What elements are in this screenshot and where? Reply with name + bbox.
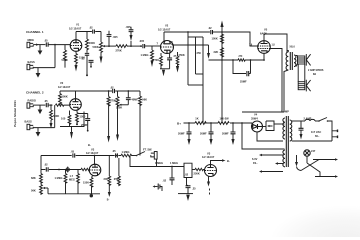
svg-text:1/2 12AX7: 1/2 12AX7 [158,28,171,32]
B- arrow x71.5 [70,132,73,139]
svg-text:B-: B- [88,143,91,147]
svg-text:1 MEG: 1 MEG [55,176,63,180]
svg-text:V2: V2 [60,81,64,85]
svg-text:FT. SW.: FT. SW. [143,148,152,152]
wire OT primary bottom [284,70,288,112]
svg-text:.05: .05 [44,39,48,43]
ground arrow C13 [300,134,303,140]
capacitor C3 decoupling [85,53,89,55]
svg-text:.005: .005 [126,25,132,29]
svg-text:1/2 12AX7: 1/2 12AX7 [58,85,71,89]
jack J2 bass input [27,64,33,69]
B- arrow pot bottom [100,57,103,64]
wire C7 to V2 grid [145,45,161,47]
ground arrow V2 cathode [160,68,170,70]
tube V3a 1/2 12AX7 [89,164,101,176]
cathode row wire [209,59,265,61]
wire V5 plate to OT [264,34,287,52]
svg-text:1 MEG: 1 MEG [141,53,149,57]
wire B+ filter bus [184,122,253,124]
node junction C7 [140,45,142,47]
svg-text:.005: .005 [113,35,119,39]
wire bus to V4 [251,123,253,127]
mixer row wire [41,155,121,157]
wire wiper out right [109,45,116,47]
wire J5 to junction [33,127,55,129]
grid row wire [41,169,81,171]
svg-text:6.3V: 6.3V [252,157,258,161]
ground bus right [178,193,193,195]
wire V5 screen to riser [270,49,282,113]
switch SW1 [318,120,320,122]
tone pot riser [40,156,42,174]
wire box to transformer [274,123,285,125]
wire primary bottom [292,140,332,142]
wiper arrow R17 [119,104,121,106]
capacitor C4 cathode bypass [89,60,94,62]
capacitor C13 line [299,128,304,130]
wiper arrow tone pot [45,187,49,189]
svg-text:56K: 56K [142,98,147,102]
filament arrow 2 [278,163,283,165]
svg-text:500K: 500K [62,95,68,99]
ground symbol bass jack [36,73,41,78]
node 222/32 [221,31,223,33]
svg-text:250: 250 [197,51,202,55]
speaker SP2 [298,80,310,92]
capacitor C23 25MF cathode [247,71,249,76]
svg-text:1/2 12AX7: 1/2 12AX7 [202,155,215,159]
node bus x188 [187,31,189,33]
svg-text:Pepco Model 9191: Pepco Model 9191 [13,100,17,127]
heater bend wire [297,167,302,171]
svg-text:100-2W: 100-2W [220,117,230,121]
wire V2b plate up [75,91,77,99]
wire jack down to trem bus [156,159,158,166]
svg-text:2 AMP SPKRS: 2 AMP SPKRS [308,69,324,72]
svg-text:.05: .05 [44,99,48,103]
wire V5 cathode [263,53,265,60]
svg-text:V5: V5 [264,28,268,32]
B- arrow under R6 [151,61,154,68]
svg-text:8Ω: 8Ω [313,74,316,76]
riser x140 [139,91,142,156]
svg-text:.02: .02 [110,85,114,89]
svg-text:500K: 500K [53,114,59,118]
svg-text:1 MEG: 1 MEG [170,161,178,165]
pilot lamp PL1 [304,150,310,156]
svg-text:250K: 250K [179,53,185,57]
svg-text:20MF: 20MF [178,132,185,136]
svg-text:1 AMP: 1 AMP [281,110,289,114]
wire primary top to fuse [292,120,305,122]
wire box bottom h74 [196,73,204,75]
arrow tick on wire [36,44,39,46]
ground symbol J5 [36,132,41,137]
arrow in box [270,125,273,127]
svg-text:CHANNEL 1: CHANNEL 1 [26,30,44,34]
B- arrow under pot [116,135,119,142]
svg-text:40MF: 40MF [131,98,138,102]
ground arrow C10 [187,139,190,145]
AC plug P1 [332,128,338,142]
svg-text:B-: B- [107,200,110,202]
small cap with arrow mid-bottom [154,186,158,188]
svg-text:100: 100 [61,117,66,121]
capacitor C15 25MF ch2 bypass [78,114,88,119]
ground drop channel1 jack [39,45,41,49]
wire box right x203 [202,37,204,123]
svg-text:V2: V2 [165,24,169,28]
svg-text:.02: .02 [89,26,93,30]
wire C14 to grid [48,104,52,106]
wire wiper to bus [47,188,49,194]
svg-text:CHANNEL 2: CHANNEL 2 [26,91,44,95]
svg-text:.05: .05 [112,149,116,153]
loop under V2b [60,112,84,127]
B- arrow under R16 [107,136,110,143]
heater diagonal down [307,163,320,177]
wire V1 plate up [75,32,77,40]
wire V3b plate to B- arrow [211,161,223,165]
grid box loop V3b [184,163,192,177]
heater diagonal up [301,160,319,171]
svg-text:B+: B+ [177,122,181,126]
wire x71.5 down to arrow [71,127,73,133]
wire grid feed to V5 [222,32,258,46]
svg-text:.02: .02 [208,26,212,30]
resistor R29 divider [176,52,179,66]
wire V4 out to box [262,126,266,128]
svg-text:.005: .005 [139,39,145,43]
heater feed arrow bottom [315,176,335,178]
B+ up arrow node [221,27,223,123]
svg-text:250K: 250K [194,171,200,175]
wire bass2 riser [54,105,56,128]
ground arrow C12 [231,139,234,145]
svg-text:500K: 500K [93,45,99,49]
node x131 [130,45,132,47]
B- arrow under R27 [108,192,111,197]
svg-text:1 MEG: 1 MEG [122,150,130,154]
wire OT secondary to speaker [296,56,298,67]
ground drop J3 [39,105,41,109]
wire V2 pin1 up to bus [164,32,210,41]
svg-text:RADIO: RADIO [28,99,36,103]
wire jog h85 [188,84,203,86]
dashed tremolo link [209,189,211,195]
speaker wires parallel [298,64,305,82]
svg-text:FIL.: FIL. [253,161,258,165]
svg-text:22K: 22K [214,50,219,54]
filament arrow 1 [262,154,283,156]
svg-text:20MF: 20MF [200,132,207,136]
svg-text:50L6: 50L6 [290,47,296,49]
svg-text:2700: 2700 [153,58,159,62]
svg-text:.02: .02 [185,172,189,176]
node filter 211 [210,122,212,124]
wire ch2 plate bus [60,90,140,92]
svg-text:V3: V3 [207,151,211,155]
svg-text:60~: 60~ [315,134,320,138]
svg-text:B-: B- [227,159,230,163]
svg-text:25MF: 25MF [240,80,247,84]
node filter 189 [188,122,190,124]
svg-text:1500: 1500 [83,181,89,185]
ground arrow V1 cathode [75,65,78,72]
wire J2 to junction [33,67,55,69]
ground drop J5 [37,128,39,132]
svg-text:117 VAC: 117 VAC [311,130,321,134]
ground symbol channel1 [39,49,41,51]
wire box mid x195.5 [195,37,197,74]
svg-text:V4: V4 [254,113,258,117]
svg-text:56K: 56K [31,189,36,193]
wire R5 to C7 [128,45,142,47]
grid wire V3b [192,169,195,171]
big node dot [90,194,93,197]
resistor R14 grid stopper ch2 [56,104,71,106]
ground arrow R13 [50,123,53,129]
ground arrow R29 [176,66,179,73]
wire screen bus bottom [242,111,284,113]
svg-text:1.7: 1.7 [70,174,74,178]
trem bus wire [130,156,184,167]
wire box top h37 [188,36,203,38]
svg-text:BASS: BASS [25,120,32,124]
svg-text:100K: 100K [89,41,95,45]
ground drop bass jack [37,68,39,73]
node grid row [58,169,60,171]
wire junction down to bass jack line [54,45,56,68]
wire fuse to switch [315,120,319,122]
ground dot V2b cathode [76,123,78,125]
wire C1 to V1 grid [48,44,70,46]
svg-text:BASS: BASS [28,60,35,64]
wire J1 to C1 [33,44,45,46]
filament arrow 3 [262,171,283,173]
wire V2 plate pin6 [172,41,209,45]
svg-text:1 MEG: 1 MEG [155,161,163,165]
wire lamp down [306,156,308,163]
ground symbol J3 [38,110,43,115]
svg-text:.02: .02 [44,163,48,167]
wire HV return [242,123,285,149]
svg-text:V1: V1 [76,23,80,27]
wire transformer to lamp area arrow [296,155,298,162]
svg-text:MIKE: MIKE [28,38,35,42]
ground bus left [48,193,100,195]
svg-text:100K: 100K [212,37,218,41]
wire J3 to C14 [33,104,45,106]
jack J5 bass2 input [27,124,33,129]
svg-text:.05: .05 [71,149,75,153]
ground arrow right bus [186,195,190,201]
node jacks junction [54,44,56,46]
svg-text:1/2 12AX7: 1/2 12AX7 [69,27,82,31]
svg-text:1/2 12AX7: 1/2 12AX7 [86,151,99,155]
svg-text:1500: 1500 [79,56,85,60]
svg-text:.25: .25 [192,186,196,190]
node trem junction [171,166,173,168]
resistor R20 100K grid [81,168,89,170]
svg-text:.02: .02 [163,179,167,183]
svg-text:68K: 68K [31,176,36,180]
svg-text:#47: #47 [311,149,316,153]
heater box loop [266,121,274,131]
jack J3 radio input [27,103,33,108]
svg-text:1K: 1K [195,117,198,121]
jack J4 footswitch [151,152,157,160]
node plate V3a [94,155,96,157]
B- arrow from plate line [208,45,210,53]
wire V4 bottom loop [257,132,283,141]
wire switch to plug [328,121,332,128]
heater feed arrow top [313,159,335,161]
wire box left x188 [187,32,189,85]
wiper arrow R4 [102,45,105,47]
cathode bypass loop [233,60,251,74]
svg-text:MEG: MEG [69,178,75,182]
wire plate bus [76,31,101,33]
ground arrow C11 [209,139,212,145]
V3b cathode arrow [208,176,210,181]
wire C3 down to dot [86,55,88,74]
wire to switch [134,155,137,157]
svg-text:35W4: 35W4 [251,117,258,121]
node rectifier feed [241,122,243,124]
node filter 233 [232,122,234,124]
svg-text:1500: 1500 [80,115,86,119]
switch SW2 footswitch [136,155,138,157]
wire OT primary top bend [287,51,288,53]
svg-text:V3: V3 [91,147,95,151]
wire V3a plate riser [94,156,96,165]
capacitor C17 40MF [127,91,129,97]
node ch2 junction [50,104,52,106]
speaker SP1 [298,54,311,66]
svg-text:270K: 270K [116,49,122,53]
jack J1 mike input [27,42,33,47]
svg-text:20MF: 20MF [222,132,229,136]
